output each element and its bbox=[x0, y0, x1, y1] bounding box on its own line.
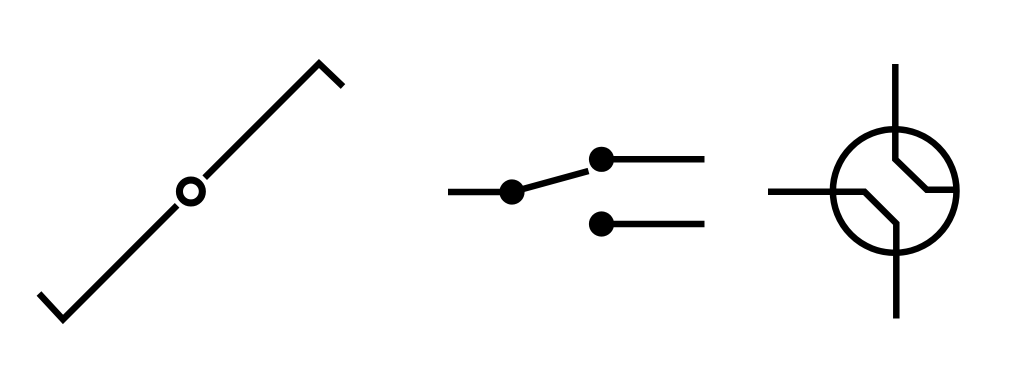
node (hinge circle) bbox=[179, 180, 202, 203]
wire (lower lever segment with end hook) bbox=[39, 205, 177, 319]
wire (left lead with jog to bottom) bbox=[768, 192, 896, 319]
wire (upper throw lead) bbox=[602, 156, 705, 163]
switch SW2 (SPDT changeover) bbox=[448, 147, 705, 237]
node (upper throw contact) bbox=[589, 147, 614, 172]
node (pole contact) bbox=[499, 179, 524, 204]
enclosure circle bbox=[833, 129, 957, 253]
wire (top lead with jog to right) bbox=[895, 64, 957, 190]
node (lower throw contact) bbox=[589, 211, 614, 236]
wire (lower throw lead) bbox=[602, 221, 705, 228]
wire (common lead) bbox=[448, 189, 512, 196]
switch SW1 (diagonal lever with hinge circle) bbox=[39, 64, 343, 320]
switch SW3 (crossover contact in circle) bbox=[768, 64, 958, 319]
wire (lever arm) bbox=[512, 171, 589, 192]
wire (upper lever segment with end hook) bbox=[205, 64, 343, 178]
